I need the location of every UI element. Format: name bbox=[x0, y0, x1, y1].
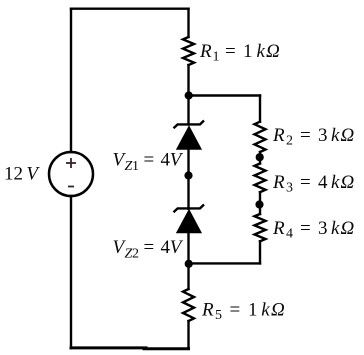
resistor R5 bbox=[183, 289, 194, 321]
voltage source 12V circle bbox=[49, 152, 93, 196]
resistor R4 bbox=[255, 214, 266, 241]
svg-text:VZ1=4V: VZ1=4V bbox=[113, 150, 184, 175]
resistor R1 bbox=[183, 37, 194, 65]
wire top horizontal bbox=[71, 7, 189, 9]
svg-text:VZ2=4V: VZ2=4V bbox=[113, 237, 184, 262]
node B (dot between zeners) bbox=[184, 171, 192, 179]
wire zener VZ2 to R5 bbox=[187, 233, 189, 290]
zener diode VZ2 bbox=[174, 205, 205, 233]
wire bottom horizontal left part bbox=[71, 346, 146, 349]
wire bottom horizontal right part bbox=[144, 347, 189, 350]
wire left vertical lower bbox=[70, 196, 72, 348]
node C (dot below VZ2) bbox=[185, 260, 193, 268]
wire zener VZ1 to zener VZ2 bbox=[187, 149, 189, 209]
wire right branch upper bbox=[259, 96, 261, 122]
wire R3 to R4 bbox=[259, 192, 261, 214]
node D (dot between R2 and R3) bbox=[256, 153, 264, 161]
resistor R3 bbox=[255, 164, 266, 193]
minus sign of source bbox=[68, 186, 74, 188]
node E (dot between R3 and R4) bbox=[255, 200, 263, 208]
node A (junction dot top) bbox=[185, 91, 193, 99]
wire node A to right branch bbox=[189, 94, 261, 96]
wire R1 to zener VZ1 bbox=[187, 65, 189, 125]
wire bottom of right branch to node C bbox=[189, 262, 261, 264]
resistor R2 bbox=[255, 122, 266, 152]
wire R2 to R3 bbox=[259, 152, 261, 164]
svg-text:12V: 12V bbox=[4, 164, 40, 185]
wire right branch lower bbox=[259, 241, 261, 263]
wire left vertical upper bbox=[70, 9, 72, 152]
plus sign of source bbox=[66, 158, 76, 168]
wire middle top bbox=[187, 9, 189, 37]
wire R5 to bottom bbox=[187, 321, 189, 349]
zener diode VZ1 bbox=[174, 121, 205, 150]
